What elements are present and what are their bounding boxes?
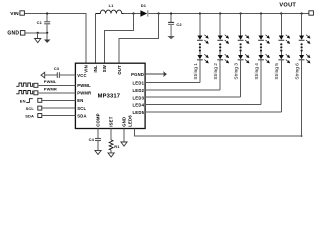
wire SCL xyxy=(42,107,76,109)
junction SW node xyxy=(132,12,134,14)
wire string 1 lower xyxy=(199,60,201,82)
wire string 3 upper xyxy=(240,14,242,36)
resistor R1 on ISET xyxy=(109,129,120,153)
dots string 6 xyxy=(301,43,303,51)
junction string 4 top xyxy=(260,12,262,14)
svg-text:LED3: LED3 xyxy=(132,95,144,100)
junction string 5 top xyxy=(280,12,282,14)
ground solid arrow below C1 xyxy=(44,33,51,43)
svg-text:VCC: VCC xyxy=(77,73,87,78)
terminal SDA xyxy=(38,114,42,118)
junction string 6 top xyxy=(301,12,303,14)
LED string 4 upper diode xyxy=(258,35,270,44)
wire string 6 lower xyxy=(301,60,303,136)
junction C1 bottom xyxy=(46,32,48,34)
LED string 5 upper diode xyxy=(278,35,290,44)
svg-text:INL: INL xyxy=(93,65,98,73)
node VOUT terminal xyxy=(279,3,313,16)
LED string 6 lower diode xyxy=(299,54,311,63)
ground solid arrow below C2 xyxy=(167,36,174,39)
svg-text:OUT: OUT xyxy=(117,65,122,75)
op-amp U1 MP3317 body xyxy=(75,63,145,128)
wire LED3 to string 3 xyxy=(145,96,241,98)
wire VIN rail xyxy=(25,14,86,64)
svg-text:LED2: LED2 xyxy=(132,88,144,93)
svg-text:C1: C1 xyxy=(37,20,43,25)
terminal SCL xyxy=(38,106,42,110)
svg-text:String 5: String 5 xyxy=(274,63,280,80)
junction string 3 top xyxy=(240,12,242,14)
wire string 3 lower xyxy=(240,60,242,97)
svg-text:PWMR: PWMR xyxy=(44,86,57,91)
svg-text:SW: SW xyxy=(102,65,107,72)
svg-text:GND: GND xyxy=(7,31,19,37)
svg-text:PWML: PWML xyxy=(44,79,57,84)
wire string 4 upper xyxy=(260,14,262,36)
ground open arrow below R1 xyxy=(108,153,114,157)
wire L1 to D1 xyxy=(124,13,141,15)
svg-text:LED4: LED4 xyxy=(132,103,144,108)
svg-text:LED6: LED6 xyxy=(127,115,132,127)
dots string 4 xyxy=(260,43,262,51)
PGND wire with arrow xyxy=(145,71,167,77)
wire PWMR xyxy=(38,92,76,94)
svg-text:COMP: COMP xyxy=(96,113,101,127)
svg-text:PGND: PGND xyxy=(131,72,144,77)
EN label and rising edge glyph xyxy=(20,99,33,104)
dots string 1 xyxy=(199,43,201,51)
supply open arrow on VCC xyxy=(41,72,45,78)
svg-text:String 3: String 3 xyxy=(234,63,240,80)
wire string 1 mid xyxy=(199,52,201,55)
svg-text:String 4: String 4 xyxy=(254,63,260,80)
svg-text:String 1: String 1 xyxy=(193,63,199,80)
capacitor C1 xyxy=(37,14,51,33)
svg-text:PWMR: PWMR xyxy=(77,91,91,96)
svg-text:EN: EN xyxy=(20,99,26,104)
dots string 2 xyxy=(219,43,221,51)
wire LED1 to string 1 xyxy=(145,82,200,84)
LED string 1 lower diode xyxy=(197,54,209,63)
wire LED2 to string 2 xyxy=(145,89,220,91)
capacitor C3 on VCC xyxy=(45,66,76,78)
LED string 2 lower diode xyxy=(217,54,229,63)
svg-text:C4: C4 xyxy=(89,137,95,142)
junction on GND wire xyxy=(37,32,39,34)
wire SW node to SW pin xyxy=(105,14,134,64)
junction OUT node xyxy=(158,12,160,14)
wire string 5 lower xyxy=(280,60,282,112)
svg-text:SDA: SDA xyxy=(25,113,34,118)
wire string 1 upper xyxy=(199,14,201,36)
wire SDA xyxy=(42,115,76,117)
svg-text:R1: R1 xyxy=(114,144,120,149)
junction string 2 top xyxy=(219,12,221,14)
PWM waveform PWML xyxy=(16,83,33,86)
wire EN xyxy=(42,99,76,101)
LED string 3 lower diode xyxy=(238,54,250,63)
svg-text:SDA: SDA xyxy=(77,113,87,118)
PWM waveform PWMR xyxy=(16,91,33,94)
wire string 4 mid xyxy=(260,52,262,55)
LED string 4 lower diode xyxy=(258,54,270,63)
svg-text:C3: C3 xyxy=(54,66,60,71)
LED string 1 upper diode xyxy=(197,35,209,44)
wire string 4 lower xyxy=(260,60,262,104)
junction C1 top xyxy=(46,12,48,14)
inductor L1 xyxy=(96,3,124,63)
junction LED6 corner xyxy=(301,135,303,137)
wire string 5 mid xyxy=(280,52,282,55)
wire string 2 lower xyxy=(219,60,221,90)
LED string 2 upper diode xyxy=(217,35,229,44)
dots string 3 xyxy=(240,43,242,51)
svg-text:SCL: SCL xyxy=(77,106,86,111)
dots string 5 xyxy=(280,43,282,51)
terminal PWMR xyxy=(34,91,38,95)
wire string 2 mid xyxy=(219,52,221,55)
wire PWML xyxy=(38,84,76,86)
svg-text:VOUT: VOUT xyxy=(279,3,296,9)
svg-text:PWML: PWML xyxy=(77,83,91,88)
junction string 1 top xyxy=(199,12,201,14)
ground open arrow at GND terminal xyxy=(35,33,41,43)
capacitor C4 on COMP xyxy=(89,129,101,151)
terminal EN xyxy=(38,98,42,102)
svg-text:String 2: String 2 xyxy=(213,63,219,80)
wire string 2 upper xyxy=(219,14,221,36)
diode D1 xyxy=(140,3,147,17)
svg-text:L1: L1 xyxy=(109,3,115,8)
wire OUT node to OUT pin xyxy=(119,14,158,64)
LED string 3 upper diode xyxy=(238,35,250,44)
LED string 6 upper diode xyxy=(299,35,311,44)
svg-text:LED1: LED1 xyxy=(132,81,144,86)
ground open arrow below C4 xyxy=(95,150,101,154)
svg-text:C2: C2 xyxy=(176,22,182,27)
node GND terminal xyxy=(7,31,25,37)
svg-text:GND: GND xyxy=(121,117,126,127)
svg-text:MP3317: MP3317 xyxy=(98,94,121,100)
svg-text:D1: D1 xyxy=(141,3,147,8)
junction C2 top xyxy=(170,12,172,14)
wire GND pad to C1 foot xyxy=(25,32,47,34)
terminal PWML xyxy=(34,83,38,87)
wire string 3 mid xyxy=(240,52,242,55)
svg-text:SCL: SCL xyxy=(26,106,35,111)
wire string 6 mid xyxy=(301,52,303,55)
svg-text:VIN: VIN xyxy=(84,65,89,73)
ground open arrow below GND pin xyxy=(121,129,127,147)
wire string 5 upper xyxy=(280,14,282,36)
svg-text:ISET: ISET xyxy=(108,116,113,126)
svg-text:EN: EN xyxy=(77,98,83,103)
wire LED5 to string 5 xyxy=(145,111,281,113)
wire string 6 upper xyxy=(301,14,303,36)
wire LED4 to string 4 xyxy=(145,104,261,106)
node VIN terminal xyxy=(10,11,24,17)
LED string 5 lower diode xyxy=(278,54,290,63)
svg-text:LED5: LED5 xyxy=(132,110,144,115)
capacitor C2 xyxy=(168,14,182,37)
svg-text:VIN: VIN xyxy=(10,11,19,17)
svg-text:String 6: String 6 xyxy=(295,63,301,80)
wire D1 cathode to VOUT xyxy=(148,13,309,15)
wire LED6 to string 6 xyxy=(135,129,302,137)
